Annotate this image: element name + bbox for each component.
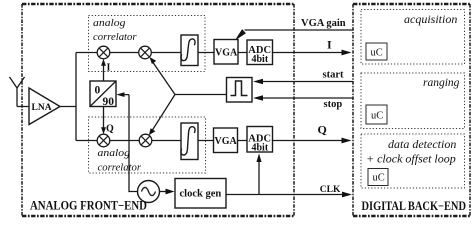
svg-text:VGA gain: VGA gain	[301, 18, 346, 29]
svg-text:LNA: LNA	[32, 103, 52, 113]
svg-text:0: 0	[95, 85, 101, 97]
svg-text:I: I	[327, 38, 332, 52]
svg-text:uC: uC	[371, 111, 383, 122]
svg-text:correlator: correlator	[98, 162, 142, 174]
svg-text:4bit: 4bit	[252, 143, 269, 154]
svg-text:ANALOG FRONT−END: ANALOG FRONT−END	[30, 199, 147, 213]
svg-text:start: start	[323, 70, 344, 81]
svg-text:clock gen: clock gen	[180, 189, 222, 200]
svg-text:analog: analog	[98, 147, 131, 159]
svg-text:acquisition: acquisition	[404, 12, 457, 26]
svg-text:correlator: correlator	[93, 31, 137, 43]
svg-text:Q: Q	[106, 124, 114, 135]
svg-text:DIGITAL BACK−END: DIGITAL BACK−END	[362, 199, 467, 213]
svg-text:Q: Q	[318, 123, 327, 137]
svg-text:VGA: VGA	[215, 48, 238, 59]
svg-text:+ clock offset loop: + clock offset loop	[366, 152, 456, 166]
svg-text:uC: uC	[373, 173, 385, 184]
svg-text:CLK: CLK	[320, 185, 341, 195]
svg-text:90: 90	[103, 96, 115, 108]
svg-text:uC: uC	[371, 48, 383, 59]
svg-text:VGA: VGA	[215, 136, 238, 147]
svg-text:4bit: 4bit	[252, 54, 269, 65]
svg-text:analog: analog	[93, 17, 126, 29]
svg-text:ranging: ranging	[423, 77, 460, 89]
svg-text:data detection: data detection	[388, 137, 456, 151]
svg-text:I: I	[107, 63, 111, 74]
svg-text:stop: stop	[324, 99, 343, 110]
